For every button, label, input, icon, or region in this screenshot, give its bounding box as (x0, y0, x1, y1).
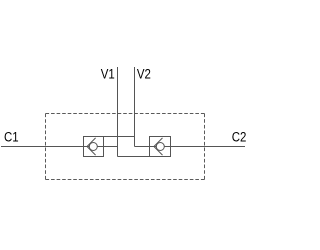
wire node B to C2 main line (135, 146, 246, 148)
wire C1 main line to node A (1, 146, 118, 148)
check valve CV1 box (84, 137, 104, 157)
check valve CV2 ball (156, 143, 164, 151)
wire V2 pilot line vertical (134, 67, 136, 147)
wire pilot cross connector bottom (V1 line to CV2) (118, 156, 150, 158)
svg-text:V1: V1 (101, 67, 115, 82)
check valve CV2 seat (154, 138, 163, 155)
valve body enclosure (dashed) (46, 114, 205, 180)
svg-text:C2: C2 (232, 130, 247, 145)
svg-text:C1: C1 (4, 130, 19, 145)
check valve CV1 ball (89, 143, 97, 151)
wire pilot cross connector top (CV1 to V2 line) (103, 136, 135, 138)
check valve CV1 seat (87, 138, 96, 155)
svg-text:V2: V2 (137, 67, 151, 82)
check valve CV2 box (150, 137, 171, 157)
wire V1 pilot line vertical (117, 67, 119, 157)
